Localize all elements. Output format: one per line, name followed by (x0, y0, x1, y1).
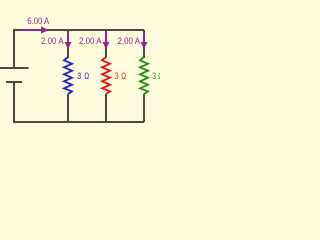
wire: branch 2 vertical top (105, 30, 107, 58)
svg-text:3: 3 (115, 71, 119, 82)
resistor R3 3 ohm (green zigzag) (140, 57, 148, 94)
svg-text:Ω: Ω (121, 71, 126, 82)
current arrow I1 into branch 1 (67, 32, 69, 43)
svg-text:Ω: Ω (84, 71, 89, 82)
wire: bottom wire from battery to branch 3 (14, 83, 144, 122)
resistor R1 3 ohm (blue zigzag) (64, 57, 72, 94)
svg-text:2.00 A: 2.00 A (118, 36, 141, 47)
wire: branch 3 vertical top (143, 30, 145, 58)
wire: top wire from battery to branch 3 (14, 30, 144, 67)
current arrow I total on top wire (20, 29, 42, 31)
svg-text:3: 3 (77, 71, 81, 82)
svg-text:6.00 A: 6.00 A (27, 16, 49, 27)
wire: branch 1 vertical bottom (67, 94, 69, 122)
resistor R2 3 ohm (red zigzag) (102, 57, 110, 94)
wire: branch 2 vertical bottom (105, 94, 107, 122)
current arrow I3 into branch 3 (143, 32, 145, 43)
current arrow I2 into branch 2 (105, 32, 107, 43)
svg-text:2.00 A: 2.00 A (41, 36, 64, 47)
svg-text:3: 3 (152, 71, 156, 82)
svg-text:Ω: Ω (158, 71, 160, 82)
battery V1 long plate (+) (0, 67, 29, 69)
wire: branch 3 vertical bottom (143, 94, 145, 122)
wire: branch 1 vertical top (67, 30, 69, 58)
battery V1 short plate (-) (6, 81, 22, 83)
svg-text:2.00 A: 2.00 A (79, 36, 102, 47)
